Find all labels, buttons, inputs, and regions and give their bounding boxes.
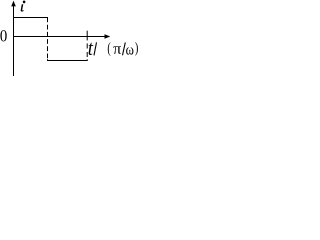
x-axis arrowhead <box>105 34 111 39</box>
dashed transition at t=pi/omega <box>47 18 49 59</box>
y-axis i (vertical axis line) <box>13 4 15 76</box>
axis label t <box>89 43 94 55</box>
x-axis t (horizontal axis line) <box>13 36 106 38</box>
waveform positive half-cycle level <box>13 17 48 19</box>
background <box>0 0 141 76</box>
close parenthesis <box>135 42 138 56</box>
omega symbol <box>126 47 133 54</box>
axis tick at t=2pi/omega <box>86 31 88 41</box>
slash after t <box>94 42 97 55</box>
y-axis arrowhead <box>11 1 16 7</box>
open parenthesis <box>108 42 111 56</box>
slash between pi and omega <box>123 43 126 56</box>
pi symbol <box>113 46 121 53</box>
waveform negative half-cycle level <box>47 60 88 62</box>
label i <box>23 1 26 4</box>
label 0 (origin) <box>0 30 6 41</box>
dashed transition at t=2pi/omega <box>86 43 88 48</box>
